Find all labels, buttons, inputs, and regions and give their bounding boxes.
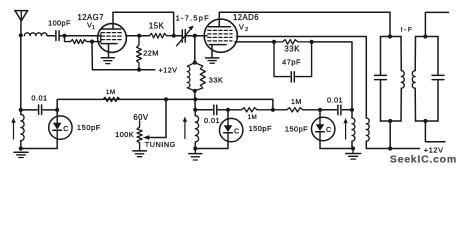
node IF primary bottom drop xyxy=(388,146,392,150)
wire 33K out to T2 primary xyxy=(312,42,352,110)
node IF primary top xyxy=(388,34,392,38)
capacitor IF secondary xyxy=(437,37,439,76)
inductor tank2 coil xyxy=(194,114,196,117)
varactor diode C no2 150pF xyxy=(220,118,243,141)
node varicap3 top xyxy=(318,108,322,112)
ground V2 cathode xyxy=(206,57,219,59)
arrow tank3 tuning xyxy=(345,122,347,140)
node tank2 ground xyxy=(193,146,197,150)
svg-text:0.01: 0.01 xyxy=(204,116,220,125)
V1 cathode lead down xyxy=(108,44,110,58)
capacitor C3 0.01 no2 xyxy=(213,105,215,115)
wire IF secondary output xyxy=(425,12,448,36)
svg-text:TUNING: TUNING xyxy=(145,140,176,149)
svg-text:33K: 33K xyxy=(209,76,224,85)
node V1 grid input xyxy=(62,34,66,38)
svg-text:1M: 1M xyxy=(291,99,302,106)
capacitor IF primary xyxy=(380,37,382,76)
wire tank2 bottom xyxy=(195,142,228,149)
arrow tank2 tuning xyxy=(184,120,186,139)
V1 grid dashes xyxy=(101,32,104,34)
capacitor 47pF loop xyxy=(274,42,290,77)
wire tank1 to C2 xyxy=(21,109,37,111)
arrow tank1 tuning xyxy=(13,121,15,139)
antenna xyxy=(15,10,28,12)
ground tank1 xyxy=(14,151,28,153)
svg-text:2: 2 xyxy=(245,27,248,33)
wiper arrow xyxy=(143,135,149,140)
V2 plate bar xyxy=(209,26,231,28)
resistor 1M no2 xyxy=(228,109,242,111)
wire tuning bus xyxy=(57,99,273,110)
inductor T2 primary coil xyxy=(351,110,353,118)
inductor IF primary coil xyxy=(400,37,402,71)
variable cap arrow xyxy=(177,28,192,46)
svg-text:SeekIC.com: SeekIC.com xyxy=(390,154,457,166)
capacitor C1 100pF xyxy=(55,31,57,41)
node tank3 top xyxy=(350,108,354,112)
svg-text:1: 1 xyxy=(92,25,95,31)
wire into V1 g3 xyxy=(87,41,101,43)
capacitor C2 0.01 xyxy=(38,105,40,115)
node 33K-47pF right xyxy=(310,40,314,44)
wire IF primary bottom bar xyxy=(381,120,402,122)
ground tank3 xyxy=(352,149,354,154)
wire to V2 grid xyxy=(195,35,207,37)
wire IF secondary bottom to +12V stub xyxy=(425,121,445,142)
svg-text:47pF: 47pF xyxy=(282,57,301,66)
svg-text:100K: 100K xyxy=(115,130,134,139)
capacitor C4 0.01 no3 xyxy=(320,109,336,111)
inductor T2 secondary coil xyxy=(366,118,369,141)
node varicap2 top xyxy=(226,108,230,112)
V2 cathode bar xyxy=(210,44,227,46)
wire tank3 bottom xyxy=(320,141,353,149)
wire step down to grid resistor xyxy=(65,36,71,42)
wire down to +12V rail xyxy=(92,42,155,70)
node tank1 top xyxy=(19,108,23,112)
wire antenna feed down xyxy=(20,21,22,36)
svg-text:0.01: 0.01 xyxy=(31,93,47,102)
svg-text:0.01: 0.01 xyxy=(327,96,343,105)
node IF secondary bottom xyxy=(423,119,427,123)
varactor diode C no1 150pF xyxy=(49,116,72,139)
wire varicap2 lead xyxy=(227,110,229,119)
svg-text:+12V: +12V xyxy=(159,65,178,74)
node 22M bottom on +12V rail xyxy=(137,68,141,72)
wire V2 grid down to cage xyxy=(194,36,196,63)
node IF primary bottom xyxy=(388,119,392,123)
node A variable cap left xyxy=(172,34,176,38)
wire C2 to varicap1 xyxy=(43,109,57,111)
node 33K-47pF left xyxy=(272,40,276,44)
V2 cathode lead down xyxy=(211,45,213,58)
node antenna junction xyxy=(19,33,23,37)
wire coil to C1 xyxy=(47,35,54,37)
V2 grid dashes xyxy=(208,29,211,31)
inductor tank1 coil xyxy=(20,110,22,114)
svg-text:1M: 1M xyxy=(106,89,116,96)
capacitor variable 1-7.5pF xyxy=(174,35,181,37)
wire tank1 bottom xyxy=(21,139,57,148)
tube V2 envelope xyxy=(204,19,237,52)
svg-text:12AD6: 12AD6 xyxy=(233,13,259,22)
resistor 33K output xyxy=(274,41,283,43)
svg-text:C: C xyxy=(234,126,240,135)
wire V2 lower lead xyxy=(235,41,274,43)
svg-text:15K: 15K xyxy=(149,22,165,31)
node cage top xyxy=(193,61,197,65)
wire IF primary top bar xyxy=(381,36,402,38)
svg-text:60V: 60V xyxy=(133,113,149,122)
inductor IF secondary coil xyxy=(414,37,416,71)
svg-text:150pF: 150pF xyxy=(249,124,272,133)
wire cage to tank2 xyxy=(194,91,197,115)
svg-text:C: C xyxy=(63,124,69,133)
V2 plate lead up xyxy=(218,12,220,27)
wire varicap3 lead xyxy=(319,110,321,118)
resistor 15K xyxy=(149,33,166,38)
wire IF secondary bottom bar xyxy=(416,120,439,122)
resistor grid zigzag xyxy=(71,40,87,44)
wire grid node to V1 g1 xyxy=(65,35,101,37)
node tuning wiper tap xyxy=(164,97,168,101)
wire C1 to grid node xyxy=(59,35,64,37)
svg-text:100pF: 100pF xyxy=(48,18,71,27)
wire wiper riser xyxy=(148,99,167,137)
ground V1 cathode xyxy=(101,57,114,59)
V1 plate lead up xyxy=(112,12,114,29)
V1 screen lead right xyxy=(126,35,149,37)
node bus corner xyxy=(271,108,275,112)
node bus crossing 33K xyxy=(193,97,197,101)
wire varicap1 lead xyxy=(56,110,58,116)
V1 cathode bar xyxy=(102,43,117,45)
inductor-resistor 33K cage xyxy=(187,63,195,91)
svg-text:150pF: 150pF xyxy=(285,124,308,133)
svg-text:1-7.5pF: 1-7.5pF xyxy=(176,14,210,23)
resistor 1M no3 xyxy=(273,109,287,111)
wire T2 secondary bottom to +12V line xyxy=(366,141,419,148)
resistor 1M no1 xyxy=(103,97,120,101)
V1 plate bar xyxy=(101,28,121,30)
ground tank2 xyxy=(194,149,196,154)
potentiometer 100K xyxy=(139,121,141,127)
wire tank2 to C3 xyxy=(195,109,212,111)
varactor diode C no3 150pF xyxy=(312,117,335,140)
node 22M top xyxy=(137,34,141,38)
svg-text:22M: 22M xyxy=(143,49,159,58)
svg-text:150pF: 150pF xyxy=(77,123,101,132)
wire antenna down run xyxy=(20,36,22,110)
svg-text:C: C xyxy=(326,125,332,134)
wire V2 plate top run xyxy=(219,12,390,36)
wire V1 plate top run xyxy=(113,12,174,36)
svg-text:V: V xyxy=(239,22,244,31)
node tank1 ground xyxy=(19,146,23,150)
node cage bottom xyxy=(193,89,197,93)
svg-text:33K: 33K xyxy=(284,45,300,54)
svg-text:I-F: I-F xyxy=(401,27,414,34)
node grid resistor out xyxy=(90,40,94,44)
wire IF secondary top bar xyxy=(416,36,439,38)
inductor L1 antenna coil xyxy=(24,33,47,36)
node varicap1 top xyxy=(55,108,59,112)
resistor 22M xyxy=(138,36,140,45)
node IF secondary top xyxy=(423,34,427,38)
wire C3 to varicap2 xyxy=(218,109,228,111)
node tank3 ground xyxy=(351,146,355,150)
V1 grid side bar xyxy=(100,33,102,42)
node V2 grid xyxy=(193,34,197,38)
svg-text:1M: 1M xyxy=(248,114,257,121)
wire V2 upper lead to T2 secondary xyxy=(237,37,367,119)
ground tuning pot xyxy=(133,150,147,152)
tube V1 envelope xyxy=(98,24,127,53)
node tank2 top xyxy=(193,108,197,112)
wire IF primary bottom drop xyxy=(389,121,391,149)
